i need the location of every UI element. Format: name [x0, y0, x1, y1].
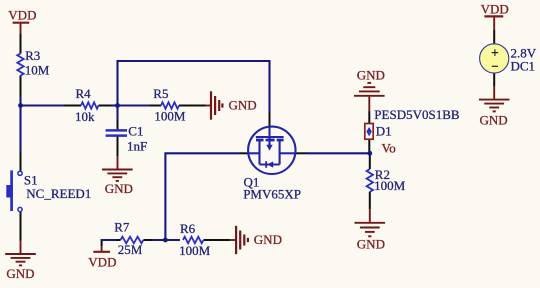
- svg-text:100M: 100M: [374, 178, 406, 193]
- svg-text:GND: GND: [357, 237, 385, 252]
- svg-text:R7: R7: [114, 220, 130, 235]
- svg-text:R5: R5: [153, 86, 168, 101]
- svg-text:100M: 100M: [179, 243, 211, 258]
- svg-text:DC1: DC1: [511, 59, 536, 74]
- svg-text:VDD: VDD: [481, 1, 509, 16]
- svg-text:D1: D1: [376, 123, 392, 138]
- svg-text:VDD: VDD: [8, 7, 36, 22]
- svg-text:1nF: 1nF: [127, 139, 147, 154]
- svg-text:GND: GND: [357, 68, 385, 83]
- svg-text:R6: R6: [180, 221, 196, 236]
- svg-text:GND: GND: [6, 266, 34, 281]
- svg-text:GND: GND: [480, 112, 508, 127]
- svg-text:GND: GND: [105, 181, 133, 196]
- svg-text:R4: R4: [76, 86, 92, 101]
- svg-text:NC_REED1: NC_REED1: [26, 186, 91, 201]
- svg-text:Vo: Vo: [382, 141, 396, 156]
- svg-text:100M: 100M: [154, 109, 186, 124]
- svg-text:10k: 10k: [75, 109, 95, 124]
- svg-text:GND: GND: [229, 98, 257, 113]
- svg-text:GND: GND: [254, 232, 282, 247]
- svg-text:PMV65XP: PMV65XP: [243, 186, 301, 201]
- svg-text:PESD5V0S1BB: PESD5V0S1BB: [374, 107, 460, 122]
- svg-text:VDD: VDD: [88, 254, 116, 269]
- svg-text:R3: R3: [25, 48, 40, 63]
- svg-text:25M: 25M: [118, 242, 143, 257]
- svg-text:C1: C1: [128, 123, 143, 138]
- svg-text:10M: 10M: [25, 63, 50, 78]
